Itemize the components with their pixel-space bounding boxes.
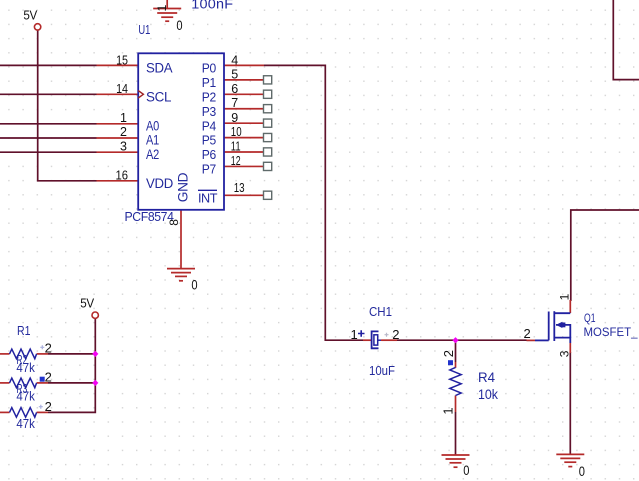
wire 5V bottom vertical bus: [48, 319, 95, 413]
wire 5V vertical to VDD: [38, 30, 97, 181]
IC U1 PCF8574 body: [138, 53, 224, 210]
svg-text:1: 1: [441, 407, 456, 414]
svg-text:2: 2: [45, 399, 52, 414]
unconnected pin square P4: [264, 119, 272, 127]
wire R1 row1: [48, 353, 95, 355]
pin stub Q1 gate 2: [527, 339, 536, 341]
ground under IC: [167, 269, 195, 281]
svg-text:2: 2: [441, 350, 456, 357]
svg-text:14: 14: [116, 82, 128, 96]
svg-text:16: 16: [116, 169, 129, 183]
svg-text:47k: 47k: [16, 389, 35, 404]
pin stub SCL 14: [97, 93, 139, 95]
resistor R1b 47k: [10, 378, 37, 388]
unconnected pin square INT: [264, 191, 272, 199]
pin stub P4 9: [224, 122, 263, 124]
wire R4 to ground: [455, 412, 457, 455]
svg-text:3: 3: [558, 350, 572, 357]
pin stub P2 6: [224, 93, 263, 95]
pin stub R1c left: [0, 411, 10, 413]
svg-text:3: 3: [120, 140, 127, 154]
pin stub A2 3: [97, 151, 139, 153]
pin stub P1 5: [224, 79, 263, 81]
svg-text:Q1: Q1: [584, 311, 596, 325]
svg-text:0: 0: [191, 277, 197, 292]
wire A1 net: [0, 137, 97, 139]
svg-text:P4: P4: [202, 118, 216, 133]
svg-text:5V: 5V: [23, 9, 37, 23]
svg-text:R1: R1: [17, 323, 31, 338]
unconnected pin square P6: [264, 148, 272, 156]
pin stub A0 1: [97, 123, 139, 125]
wire junction down to R4: [455, 340, 457, 362]
power symbol 5V top: [34, 24, 40, 30]
svg-text:P0: P0: [202, 61, 216, 76]
unconnected pin square P5: [264, 133, 272, 141]
origin square R4: [448, 360, 453, 365]
svg-text:4: 4: [231, 53, 238, 67]
wire SDA net: [0, 64, 97, 66]
svg-text:13: 13: [234, 181, 245, 195]
arrow of MOSFET body: [556, 322, 563, 328]
pin stub A1 2: [97, 137, 139, 139]
svg-text:12: 12: [231, 154, 241, 168]
svg-text:P3: P3: [202, 104, 216, 119]
pin stub P3 7: [224, 108, 263, 110]
pin stub R4 pin1: [455, 396, 457, 413]
origin cross row1: [40, 345, 44, 349]
ground under 100nF cap: [153, 9, 181, 22]
svg-text:2: 2: [120, 125, 127, 139]
svg-text:7: 7: [231, 96, 238, 110]
svg-text:SCL: SCL: [146, 89, 172, 104]
origin cross row3: [39, 405, 43, 409]
pin stub P7 12: [224, 165, 263, 167]
pin stub R1b right 2: [37, 382, 48, 384]
svg-text:A0: A0: [146, 118, 159, 133]
ground under Q1: [556, 454, 584, 466]
transistor Q1 MOSFET: [535, 311, 570, 343]
wire junction to Q1 gate: [456, 339, 527, 341]
svg-text:10uF: 10uF: [369, 363, 395, 378]
capacitor CH1 10uF: [372, 331, 379, 348]
svg-text:0: 0: [176, 18, 182, 33]
junction dot row1: [92, 351, 98, 357]
wire CH1 to R4 junction: [397, 339, 456, 341]
unconnected pin square P7: [264, 162, 272, 170]
unconnected pin square P2: [264, 90, 272, 98]
pin stub R1c right 2: [37, 411, 48, 413]
junction dot row2: [92, 380, 98, 386]
svg-text:P1: P1: [202, 75, 216, 90]
pin stub VDD 16: [97, 180, 139, 182]
power symbol 5V bottom: [92, 312, 98, 318]
pin stub P6 11: [224, 151, 263, 153]
svg-text:10k: 10k: [478, 387, 498, 402]
plus polarity mark: [358, 330, 365, 337]
svg-text:P7: P7: [202, 162, 216, 177]
svg-text:VDD: VDD: [146, 176, 174, 191]
svg-text:U1: U1: [138, 22, 150, 37]
svg-text:6: 6: [231, 82, 238, 96]
svg-text:1: 1: [155, 4, 169, 11]
svg-text:10: 10: [231, 125, 242, 139]
resistor R4 10k: [450, 367, 461, 395]
svg-text:2: 2: [392, 327, 399, 342]
svg-text:CH1: CH1: [369, 304, 392, 319]
svg-text:5V: 5V: [80, 297, 94, 311]
ground under R4: [442, 455, 470, 467]
origin dot R1a: [16, 356, 18, 358]
svg-text:9: 9: [231, 111, 238, 125]
origin dot R1b: [16, 386, 18, 388]
svg-text:R4: R4: [478, 370, 495, 385]
resistor R1a 47k: [10, 349, 37, 359]
svg-text:8: 8: [167, 219, 181, 226]
pin stub R4 pin2: [455, 362, 457, 368]
svg-text:1: 1: [120, 111, 127, 125]
svg-text:SDA: SDA: [146, 61, 173, 76]
unconnected pin square P3: [264, 105, 272, 113]
INT overline: [198, 189, 217, 191]
pin stub P0 4: [224, 64, 264, 66]
svg-text:2: 2: [45, 341, 52, 356]
wire Q1 drain net: [571, 210, 639, 301]
svg-text:47k: 47k: [16, 360, 35, 375]
svg-text:P2: P2: [202, 89, 216, 104]
svg-text:1: 1: [558, 293, 572, 300]
clock chevron on SCL: [138, 91, 143, 98]
svg-text:0: 0: [579, 464, 585, 479]
svg-text:A2: A2: [146, 147, 159, 162]
pin stub C2 cap to ground: [166, 0, 168, 9]
pin stub Q1 drain 1: [569, 300, 571, 313]
svg-text:15: 15: [116, 53, 128, 67]
svg-text:0: 0: [463, 463, 469, 478]
svg-text:5: 5: [231, 68, 238, 82]
pin stub R1a right 2: [37, 353, 48, 355]
wire P0 net to CH1: [264, 65, 363, 340]
svg-text:P5: P5: [202, 133, 216, 148]
pin stub Q1 source 3: [569, 343, 571, 353]
svg-text:1: 1: [351, 327, 358, 342]
pin stub CH1 pin1: [363, 339, 372, 341]
svg-text:47k: 47k: [16, 416, 35, 431]
svg-text:100nF: 100nF: [191, 0, 233, 11]
svg-text:2: 2: [524, 326, 531, 341]
svg-text:MOSFET_: MOSFET_: [584, 325, 638, 339]
wire Q1 source to ground: [569, 352, 571, 454]
svg-text:11: 11: [231, 140, 241, 154]
pin stub SDA 15: [97, 64, 139, 66]
wire A2 net: [0, 151, 97, 153]
pin stub R1a left: [0, 353, 10, 355]
unconnected pin square P1: [264, 76, 272, 84]
junction dot CH1/R4: [452, 337, 458, 343]
svg-text:GND: GND: [175, 172, 190, 202]
svg-text:A1: A1: [146, 133, 159, 148]
pin stub IC GND 8: [180, 210, 182, 269]
pin stub CH1 pin2: [381, 339, 397, 341]
origin square row2: [40, 377, 45, 382]
wire SCL net: [0, 93, 97, 95]
pin stub INT 13: [224, 194, 263, 196]
svg-text:2: 2: [45, 370, 52, 385]
origin cross CH1: [385, 333, 389, 337]
wire R1 row2: [48, 382, 95, 384]
resistor R1c 47k: [10, 408, 37, 418]
pin stub R1b left: [0, 382, 10, 384]
wire A0 net: [0, 123, 97, 125]
svg-text:INT: INT: [198, 191, 218, 206]
pin stub P5 10: [224, 137, 263, 139]
svg-text:P6: P6: [202, 147, 216, 162]
wire top right corner: [613, 0, 639, 80]
